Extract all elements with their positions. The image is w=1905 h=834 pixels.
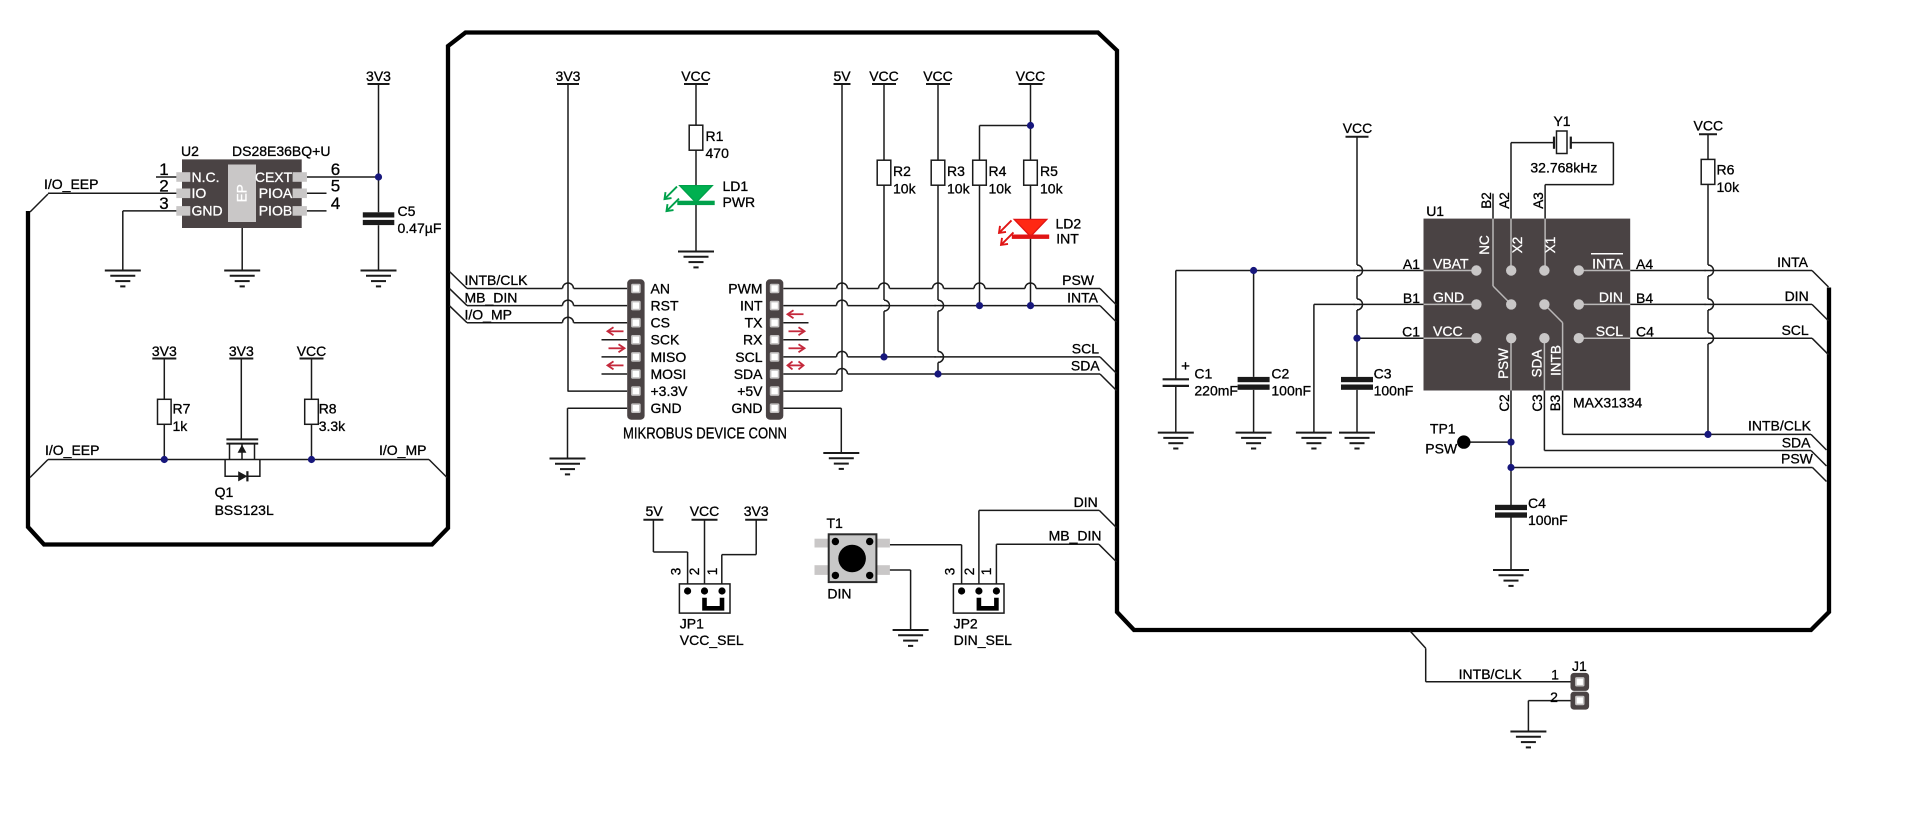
svg-text:VCC: VCC [1694,118,1724,134]
svg-text:J1: J1 [1572,658,1587,674]
svg-text:10k: 10k [1040,181,1064,197]
svg-text:2: 2 [1550,689,1558,705]
svg-text:GND: GND [192,203,223,219]
svg-text:VCC: VCC [690,503,720,519]
svg-text:SDA: SDA [1782,435,1811,451]
svg-text:5: 5 [331,177,340,196]
svg-text:R1: R1 [706,128,724,144]
svg-text:Y1: Y1 [1553,113,1570,129]
svg-text:470: 470 [706,145,730,161]
svg-text:3: 3 [669,568,684,576]
svg-text:R2: R2 [893,163,911,179]
svg-text:DIN: DIN [1599,289,1623,305]
svg-text:5V: 5V [833,68,851,84]
svg-text:0.47µF: 0.47µF [398,220,442,236]
svg-text:SCL: SCL [1596,323,1623,339]
svg-text:DIN: DIN [1785,288,1809,304]
svg-text:1: 1 [1551,667,1559,683]
svg-text:JP1: JP1 [680,616,704,632]
svg-text:MIKROBUS DEVICE CONN: MIKROBUS DEVICE CONN [623,426,787,443]
svg-text:DIN_SEL: DIN_SEL [954,632,1013,648]
svg-text:1k: 1k [173,418,189,434]
svg-text:MB_DIN: MB_DIN [1049,527,1102,543]
svg-text:DIN: DIN [827,586,851,602]
svg-text:B2: B2 [1479,192,1494,209]
svg-text:1: 1 [705,568,720,576]
svg-text:MAX31334: MAX31334 [1573,395,1642,411]
svg-text:SDA: SDA [734,366,763,382]
svg-text:INTB/CLK: INTB/CLK [465,272,529,288]
svg-text:DIN: DIN [1074,494,1098,510]
svg-text:T1: T1 [827,515,844,531]
svg-text:LD2: LD2 [1056,216,1082,232]
svg-text:3.3k: 3.3k [319,418,346,434]
svg-text:B1: B1 [1403,290,1420,306]
svg-text:EP: EP [235,184,250,202]
svg-text:SDA: SDA [1530,350,1545,378]
svg-text:GND: GND [651,400,682,416]
svg-text:C2: C2 [1271,366,1289,382]
svg-text:R7: R7 [173,401,191,417]
svg-text:A2: A2 [1497,192,1512,209]
svg-text:A3: A3 [1531,192,1546,209]
svg-text:R6: R6 [1717,162,1735,178]
svg-text:SCL: SCL [1781,322,1808,338]
svg-text:3V3: 3V3 [152,343,177,359]
svg-text:C5: C5 [398,203,416,219]
svg-text:CEXT: CEXT [255,169,293,185]
svg-text:1: 1 [979,568,994,576]
svg-text:C3: C3 [1530,394,1545,411]
svg-text:C4: C4 [1636,324,1654,340]
svg-text:U1: U1 [1426,203,1444,219]
svg-text:N.C.: N.C. [192,169,220,185]
svg-text:C1: C1 [1194,366,1212,382]
svg-text:A1: A1 [1403,256,1420,272]
svg-text:I/O_EEP: I/O_EEP [44,176,98,192]
svg-text:CS: CS [651,315,670,331]
svg-text:I/O_MP: I/O_MP [379,442,426,458]
svg-text:VCC: VCC [297,343,327,359]
svg-text:+3.3V: +3.3V [651,383,689,399]
svg-text:3V3: 3V3 [556,68,581,84]
svg-text:PWR: PWR [723,194,756,210]
svg-text:220mF: 220mF [1194,383,1238,399]
svg-text:VCC: VCC [923,68,953,84]
svg-text:10k: 10k [893,181,917,197]
svg-text:10k: 10k [1717,179,1741,195]
svg-text:2: 2 [687,568,702,576]
svg-text:R5: R5 [1040,163,1058,179]
svg-text:INTA: INTA [1592,255,1624,271]
svg-text:A4: A4 [1636,256,1653,272]
svg-text:INT: INT [740,298,763,314]
svg-text:PIOA: PIOA [259,185,293,201]
svg-text:32.768kHz: 32.768kHz [1530,160,1597,176]
svg-text:4: 4 [331,194,340,213]
svg-text:GND: GND [731,400,762,416]
svg-text:VCC: VCC [869,68,899,84]
svg-text:INTA: INTA [1777,254,1809,270]
svg-text:AN: AN [651,280,670,296]
svg-text:VCC: VCC [681,68,711,84]
svg-text:PIOB: PIOB [259,203,292,219]
svg-text:3V3: 3V3 [366,68,391,84]
svg-text:B4: B4 [1636,290,1653,306]
svg-text:C1: C1 [1402,324,1420,340]
svg-text:GND: GND [1433,289,1464,305]
svg-text:R8: R8 [319,401,337,417]
svg-text:3: 3 [159,194,168,213]
svg-text:100nF: 100nF [1271,383,1311,399]
svg-text:C2: C2 [1497,394,1512,411]
svg-text:B3: B3 [1548,395,1563,412]
svg-text:INTB: INTB [1549,345,1564,376]
svg-text:VCC: VCC [1343,120,1373,136]
svg-text:SCL: SCL [1072,341,1099,357]
svg-text:10k: 10k [947,181,971,197]
svg-text:INT: INT [1056,231,1079,247]
svg-text:DS28E36BQ+U: DS28E36BQ+U [232,143,330,159]
svg-text:LD1: LD1 [723,178,749,194]
svg-text:MOSI: MOSI [651,366,687,382]
svg-text:X2: X2 [1510,237,1525,254]
svg-text:PWM: PWM [728,280,762,296]
svg-text:VCC: VCC [1016,68,1046,84]
svg-text:PSW: PSW [1781,450,1814,466]
svg-text:I/O_EEP: I/O_EEP [45,442,99,458]
svg-text:Q1: Q1 [215,484,234,500]
svg-text:100nF: 100nF [1528,512,1568,528]
svg-text:JP2: JP2 [954,616,978,632]
svg-text:RST: RST [651,298,679,314]
svg-text:100nF: 100nF [1374,383,1414,399]
svg-text:U2: U2 [181,143,199,159]
svg-text:INTB/CLK: INTB/CLK [1748,417,1812,433]
svg-text:NC: NC [1477,235,1492,255]
svg-text:2: 2 [962,568,977,576]
svg-text:BSS123L: BSS123L [215,502,274,518]
svg-text:5V: 5V [645,503,663,519]
svg-text:PSW: PSW [1496,348,1511,379]
svg-text:SCK: SCK [651,332,680,348]
svg-text:SCL: SCL [735,349,762,365]
svg-text:R3: R3 [947,163,965,179]
svg-text:+5V: +5V [737,383,763,399]
svg-text:3V3: 3V3 [744,503,769,519]
svg-text:3V3: 3V3 [229,343,254,359]
svg-text:PSW: PSW [1062,272,1095,288]
svg-text:VCC: VCC [1433,323,1463,339]
svg-text:VCC_SEL: VCC_SEL [680,632,744,648]
svg-text:10k: 10k [989,181,1013,197]
svg-text:PSW: PSW [1425,441,1458,457]
svg-text:MB_DIN: MB_DIN [465,289,518,305]
svg-text:TX: TX [745,315,764,331]
svg-text:3: 3 [942,568,957,576]
svg-text:VBAT: VBAT [1433,255,1469,271]
svg-text:TP1: TP1 [1430,421,1456,437]
svg-text:SDA: SDA [1071,358,1100,374]
svg-text:INTA: INTA [1067,289,1099,305]
svg-text:RX: RX [743,332,763,348]
svg-text:+: + [1181,358,1190,375]
svg-text:C3: C3 [1374,366,1392,382]
svg-text:IO: IO [192,185,207,201]
svg-text:X1: X1 [1543,237,1558,254]
svg-text:2: 2 [159,177,168,196]
svg-text:I/O_MP: I/O_MP [465,306,512,322]
svg-text:INTB/CLK: INTB/CLK [1459,666,1523,682]
svg-text:MISO: MISO [651,349,687,365]
svg-text:R4: R4 [989,163,1007,179]
svg-text:C4: C4 [1528,495,1546,511]
